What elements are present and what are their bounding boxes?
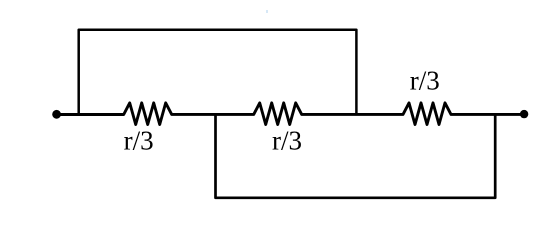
svg-text:r/3: r/3 [410,66,440,96]
svg-text:r/3: r/3 [124,126,154,156]
svg-text:r/3: r/3 [272,126,302,156]
